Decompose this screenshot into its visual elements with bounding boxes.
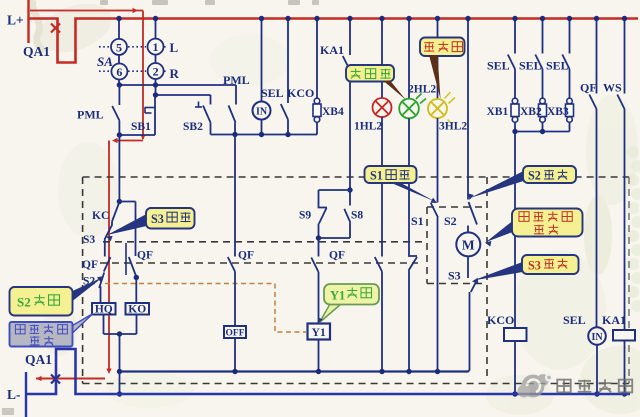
- wire: OFF column: [234, 135, 236, 257]
- dashed mechanical link S-contacts row: [103, 241, 427, 243]
- contact S8: [349, 190, 351, 206]
- wire: XB merge bar: [515, 131, 570, 133]
- contact KC (closing relay): [112, 203, 119, 222]
- dotted selector leaders row 1: [99, 46, 109, 48]
- svg-text:2: 2: [153, 64, 159, 78]
- contact SEL #1: [514, 19, 516, 54]
- wire: horizontal y=95 to SB2: [155, 79, 157, 95]
- lamp 1HL2 (red): [381, 19, 383, 99]
- pushbutton SB1: [154, 95, 156, 135]
- svg-text:S3: S3: [83, 234, 95, 246]
- contact QF (KO column): [125, 243, 127, 275]
- contact KA1 top: [349, 19, 351, 56]
- svg-text:XB4: XB4: [322, 106, 344, 118]
- svg-text:KO: KO: [128, 304, 146, 316]
- callout S1闭合: [389, 182, 436, 202]
- wire: red return path bottom horizontal: [36, 378, 105, 380]
- contact QF (2HL2 column, z-shape): [409, 255, 417, 258]
- svg-text:SB1: SB1: [131, 121, 151, 133]
- svg-text:S3: S3: [528, 258, 541, 272]
- svg-text:R: R: [170, 66, 180, 81]
- svg-text:SEL: SEL: [546, 59, 569, 73]
- link XB1: [512, 98, 518, 104]
- svg-text:2HL2: 2HL2: [408, 84, 436, 96]
- svg-text:XB3: XB3: [547, 106, 569, 118]
- svg-text:SEL: SEL: [563, 313, 586, 327]
- svg-text:1HL2: 1HL2: [354, 121, 382, 133]
- svg-text:SA: SA: [97, 54, 113, 69]
- coil KA1: [613, 330, 635, 341]
- svg-text:KA1: KA1: [320, 43, 344, 57]
- breaker QA1 cross mark (top): [51, 24, 60, 33]
- svg-text:6: 6: [116, 65, 122, 79]
- svg-text:KCO: KCO: [287, 86, 314, 100]
- wire: lower sub-bus y=134.5: [211, 134, 318, 136]
- svg-text:SEL: SEL: [261, 86, 284, 100]
- svg-text:L+: L+: [7, 13, 24, 28]
- wire between 5 and 6: [118, 55, 120, 64]
- selector SA contact 2: [148, 63, 164, 79]
- svg-text:HQ: HQ: [95, 304, 113, 316]
- wire: left chain down from PML junction: [118, 135, 120, 202]
- link XB3: [567, 98, 573, 104]
- contact S3 (bottom, open): [471, 279, 478, 293]
- svg-text:QA1: QA1: [23, 44, 50, 59]
- selector SA contact 6: [111, 64, 127, 80]
- svg-text:IN: IN: [256, 107, 268, 118]
- dashed cabinet boundary box: [83, 176, 629, 178]
- contact SEL #3: [569, 19, 571, 54]
- motor M (charging motor): [456, 232, 480, 256]
- branch to KO column: [119, 201, 135, 203]
- svg-text:QF: QF: [137, 250, 153, 262]
- svg-text:5: 5: [116, 40, 122, 54]
- svg-text:S1: S1: [411, 214, 424, 228]
- link XB4: [316, 19, 318, 99]
- coil KCO: [504, 328, 527, 341]
- coil Y1 trip coil: [308, 324, 331, 340]
- wire: red current-path horizontal y=140.5: [114, 140, 143, 142]
- svg-text:QF: QF: [329, 250, 345, 262]
- wire: L- terminal stub: [25, 372, 27, 417]
- svg-text:KA1: KA1: [602, 313, 626, 327]
- svg-text:QA1: QA1: [25, 352, 52, 367]
- dashed mechanical link QF contacts row: [100, 262, 418, 264]
- wire: inner neutral bus: [120, 370, 469, 372]
- contact QF (OFF column): [228, 257, 235, 272]
- wire: below HQ: [103, 315, 105, 335]
- contact QF (left chain): [104, 257, 111, 272]
- selector SA contact 1: [148, 39, 164, 55]
- svg-text:SB2: SB2: [183, 121, 203, 133]
- dashed box S1/S2/M group: [427, 206, 487, 208]
- meter SEL/IN column: [261, 19, 263, 102]
- callout S3断开: [473, 262, 523, 281]
- wire: SB1/PML junction bar: [119, 134, 155, 136]
- svg-text:S9: S9: [299, 210, 311, 222]
- svg-text:KCO: KCO: [487, 313, 514, 327]
- contact S3 (left, closed): [105, 222, 112, 257]
- wire: S2 column from bus: [467, 19, 469, 200]
- svg-text:M: M: [462, 238, 475, 253]
- svg-text:PML: PML: [223, 73, 250, 87]
- contact S1 (3HL2 column, closed): [431, 203, 438, 218]
- meter IN bottom (SEL): [588, 327, 606, 345]
- contact WS: [624, 19, 626, 94]
- contact S9: [319, 189, 351, 191]
- wire: L- bus with QA1 notch: [26, 349, 630, 394]
- svg-text:S2: S2: [444, 214, 457, 228]
- svg-text:S2: S2: [528, 168, 541, 182]
- contact QF right: [596, 19, 598, 94]
- svg-text:IN: IN: [591, 332, 603, 343]
- svg-text:XB1: XB1: [487, 106, 509, 118]
- svg-text:QF: QF: [580, 81, 597, 95]
- wire: red current-path vertical x=143: [142, 11, 144, 140]
- selector SA contact 5: [111, 39, 127, 55]
- svg-text:Y1: Y1: [312, 327, 326, 339]
- link XB2: [540, 98, 546, 104]
- contact QF (1HL2 column): [375, 257, 382, 272]
- svg-text:OFF: OFF: [226, 329, 245, 339]
- wire: HQ/KO common drop to L-: [119, 334, 121, 394]
- wire: red current-path vertical x=109 down to HQ: [108, 141, 110, 371]
- svg-text:SEL: SEL: [487, 59, 510, 73]
- wire: KCO coil column: [514, 132, 516, 329]
- svg-text:S1: S1: [370, 168, 383, 182]
- callout S2断开: [470, 171, 524, 198]
- svg-text:QF: QF: [238, 250, 254, 262]
- contact S2 (left, closed): [100, 273, 105, 304]
- svg-text:XB2: XB2: [520, 106, 542, 118]
- svg-text:S8: S8: [351, 210, 363, 222]
- lamp 3HL2 (yellow): [437, 19, 439, 100]
- svg-text:WS: WS: [603, 81, 622, 95]
- coil HQ closing coil: [92, 303, 116, 315]
- dotted selector leaders row 2: [99, 70, 109, 72]
- coil KO: [135, 278, 137, 304]
- svg-text:1: 1: [153, 40, 159, 54]
- callout S3闭合: [107, 214, 147, 235]
- svg-text:S2: S2: [17, 295, 31, 310]
- wire: L+ red bus with QA1 notch: [28, 19, 639, 63]
- breaker QA1 cross mark (bottom, navy): [51, 375, 60, 384]
- callout 绿灯亮 green-lamp-on: [346, 65, 394, 82]
- contact QF (Y1 column): [318, 238, 320, 257]
- callout 黄灯亮 yellow-lamp-on: [420, 38, 465, 57]
- wire: red current-path arrow line (top horizontal): [30, 10, 143, 12]
- contact KCO top: [287, 19, 289, 104]
- svg-text:3HL2: 3HL2: [439, 121, 467, 133]
- svg-text:L: L: [170, 40, 179, 55]
- svg-text:SEL: SEL: [519, 59, 542, 73]
- pushbutton SB2: [210, 95, 212, 105]
- svg-text:Y1: Y1: [330, 289, 345, 303]
- orange dashed trip path: [105, 284, 306, 333]
- contact S2 (open): [469, 202, 478, 225]
- svg-text:L-: L-: [7, 387, 21, 402]
- svg-text:PML: PML: [77, 108, 104, 122]
- contact PML (right): [235, 85, 237, 105]
- svg-text:S3: S3: [448, 269, 461, 283]
- contact SEL #2: [542, 19, 544, 54]
- node: top bus taps: [118, 19, 120, 40]
- svg-text:S3: S3: [151, 212, 164, 226]
- wire: horizontal y=85 to PML: [118, 80, 120, 86]
- callout S2闭合: [73, 277, 104, 301]
- svg-text:KC: KC: [92, 210, 109, 222]
- box OFF: [224, 326, 246, 338]
- callout Y1得电 Y1-energized: [320, 304, 342, 323]
- callout 合闸线圈得电 closing-coil-energized: [73, 314, 94, 334]
- contact PML (left): [118, 85, 120, 105]
- watermark logo 电力实事: [518, 374, 554, 398]
- lamp 2HL2 (green): [408, 19, 410, 100]
- callout 储能电机停转 motor-stops: [486, 221, 513, 242]
- wire: S3 down to neutral bus corner: [468, 292, 470, 372]
- svg-text:QF: QF: [82, 259, 98, 271]
- wire: M to S3: [467, 257, 469, 279]
- wire: L+ red terminal stub: [27, 0, 29, 43]
